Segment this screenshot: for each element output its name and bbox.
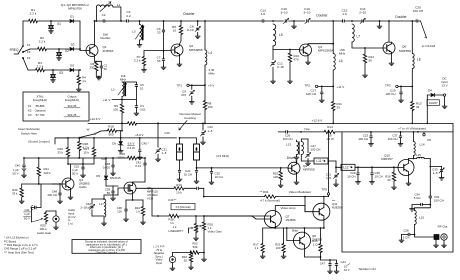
svg-text:TP2: TP2 bbox=[304, 83, 310, 87]
svg-text:1.0: 1.0 bbox=[261, 12, 266, 16]
svg-text:2N3566: 2N3566 bbox=[286, 218, 297, 222]
svg-text:10: 10 bbox=[344, 265, 347, 269]
svg-text:120: 120 bbox=[117, 210, 122, 214]
svg-text:100: 100 bbox=[276, 246, 281, 250]
svg-text:56: 56 bbox=[104, 67, 108, 71]
svg-text:D1: D1 bbox=[70, 15, 74, 19]
svg-text:D3: D3 bbox=[70, 64, 74, 68]
svg-text:C41: C41 bbox=[24, 208, 30, 212]
svg-text:F2: F2 bbox=[27, 50, 31, 54]
svg-text:100 CH: 100 CH bbox=[388, 137, 398, 141]
svg-text:1–5: 1–5 bbox=[326, 176, 331, 180]
svg-text:+7 to +9 V/Modulated: +7 to +9 V/Modulated bbox=[398, 126, 426, 130]
svg-text:3–10: 3–10 bbox=[304, 11, 311, 15]
svg-text:MRF357: MRF357 bbox=[381, 157, 393, 161]
svg-text:1 k: 1 k bbox=[136, 210, 140, 214]
svg-text:C2: C2 bbox=[102, 13, 106, 17]
svg-text:R18: R18 bbox=[108, 124, 114, 128]
svg-text:0.01: 0.01 bbox=[135, 164, 141, 168]
svg-text:Freq(MHz): Freq(MHz) bbox=[65, 98, 79, 102]
svg-text:C28: C28 bbox=[403, 228, 409, 232]
svg-text:470: 470 bbox=[294, 58, 299, 62]
svg-text:+11 V: +11 V bbox=[337, 85, 345, 89]
svg-text:3–10: 3–10 bbox=[281, 11, 288, 15]
svg-text:K3: K3 bbox=[28, 113, 32, 117]
svg-text:(4.5 MHz): (4.5 MHz) bbox=[216, 154, 229, 158]
svg-text:** R34: ** R34 bbox=[260, 190, 269, 194]
svg-text:P6: P6 bbox=[428, 138, 432, 142]
svg-text:D6: D6 bbox=[112, 141, 116, 145]
svg-text:D4: D4 bbox=[428, 89, 432, 93]
svg-text:2.2 k: 2.2 k bbox=[39, 40, 46, 44]
svg-text:2.2: 2.2 bbox=[126, 14, 131, 18]
svg-text:C45 *: C45 * bbox=[142, 142, 150, 146]
svg-text:Tantalum CH: Tantalum CH bbox=[358, 267, 375, 271]
svg-text:58.889: 58.889 bbox=[36, 104, 45, 108]
svg-text:C43 **: C43 ** bbox=[168, 198, 177, 202]
svg-text:56: 56 bbox=[369, 59, 373, 63]
svg-text:F3: F3 bbox=[27, 56, 31, 60]
svg-text:L4: L4 bbox=[209, 51, 213, 55]
svg-text:+11 V: +11 V bbox=[103, 98, 111, 102]
svg-text:92: 92 bbox=[184, 259, 188, 263]
svg-text:2.2 k: 2.2 k bbox=[134, 59, 141, 63]
svg-text:15 k: 15 k bbox=[83, 151, 89, 155]
svg-text:13 V: 13 V bbox=[441, 84, 447, 88]
svg-text:W: W bbox=[87, 128, 90, 132]
svg-text:1 k: 1 k bbox=[173, 225, 177, 229]
svg-text:D2: D2 bbox=[71, 43, 75, 47]
svg-text:Doubler: Doubler bbox=[100, 36, 110, 40]
svg-text:Bias: Bias bbox=[292, 229, 298, 233]
svg-text:923.25: 923.25 bbox=[68, 113, 77, 117]
svg-text:100 CH: 100 CH bbox=[311, 147, 321, 151]
svg-text:100 CH: 100 CH bbox=[385, 92, 395, 96]
svg-text:to C21/L8: to C21/L8 bbox=[422, 44, 436, 48]
svg-text:*** Heat Sink (See Text): *** Heat Sink (See Text) bbox=[4, 250, 34, 254]
svg-text:100 k: 100 k bbox=[44, 171, 52, 175]
svg-text:33: 33 bbox=[416, 105, 420, 109]
svg-text:1–5: 1–5 bbox=[433, 171, 438, 175]
svg-text:MHz: MHz bbox=[120, 77, 126, 81]
svg-text:MV2115: MV2115 bbox=[110, 176, 121, 180]
svg-text:33 k: 33 k bbox=[57, 151, 63, 155]
svg-text:+12.6 V: +12.6 V bbox=[312, 118, 324, 122]
svg-text:(Sound Jumper): (Sound Jumper) bbox=[28, 140, 50, 144]
svg-text:33 k: 33 k bbox=[12, 191, 18, 195]
svg-text:Driver: Driver bbox=[287, 156, 296, 160]
svg-text:Doubler: Doubler bbox=[316, 14, 328, 18]
svg-text:10: 10 bbox=[173, 29, 177, 33]
svg-text:0.4 W: 0.4 W bbox=[127, 146, 135, 150]
svg-text:1 k): 1 k) bbox=[68, 222, 73, 226]
svg-text:10: 10 bbox=[140, 87, 144, 91]
svg-text:1N4007: 1N4007 bbox=[429, 102, 438, 105]
svg-text:C40: C40 bbox=[15, 164, 21, 168]
svg-text:C20: C20 bbox=[164, 131, 170, 135]
svg-text:Input: Input bbox=[156, 261, 162, 265]
svg-text:L7: L7 bbox=[357, 35, 361, 39]
svg-text:+12.6 V: +12.6 V bbox=[90, 117, 102, 121]
svg-text:1.0: 1.0 bbox=[342, 12, 347, 16]
svg-text:330: 330 bbox=[89, 66, 94, 70]
svg-text:TP3: TP3 bbox=[385, 83, 391, 87]
svg-text:50 V: 50 V bbox=[24, 217, 30, 221]
svg-text:56: 56 bbox=[157, 59, 161, 63]
svg-text:50 V: 50 V bbox=[72, 172, 78, 176]
svg-text:100 CH: 100 CH bbox=[47, 193, 57, 197]
svg-text:Coupling: Coupling bbox=[184, 116, 196, 120]
svg-text:2–10: 2–10 bbox=[359, 11, 366, 15]
svg-text:33: 33 bbox=[157, 31, 161, 35]
svg-text:MJE300: MJE300 bbox=[332, 206, 343, 210]
svg-text:L1: L1 bbox=[117, 3, 121, 7]
svg-text:100 CH: 100 CH bbox=[413, 9, 424, 13]
svg-text:57.700: 57.700 bbox=[36, 113, 45, 117]
svg-text:L15: L15 bbox=[416, 153, 421, 157]
svg-text:0.002: 0.002 bbox=[103, 166, 111, 170]
svg-text:33: 33 bbox=[387, 178, 391, 182]
svg-text:100: 100 bbox=[208, 105, 213, 109]
svg-text:K2: K2 bbox=[28, 109, 32, 113]
svg-text:Freq(MHz): Freq(MHz) bbox=[33, 98, 47, 102]
svg-text:100 CH: 100 CH bbox=[283, 137, 293, 141]
svg-text:5 CH: 5 CH bbox=[414, 196, 421, 200]
svg-text:3.3 (Nominal): 3.3 (Nominal) bbox=[175, 206, 190, 209]
svg-text:910.25: 910.25 bbox=[68, 104, 77, 108]
svg-text:1 µF: 1 µF bbox=[24, 212, 30, 216]
svg-text:L11 *: L11 * bbox=[316, 159, 324, 163]
svg-text:MHz: MHz bbox=[209, 72, 216, 76]
svg-text:VCO: VCO bbox=[147, 197, 154, 201]
svg-text:100: 100 bbox=[113, 108, 118, 112]
svg-text:Optional: Optional bbox=[35, 109, 46, 113]
svg-text:MRF559: MRF559 bbox=[303, 167, 315, 171]
svg-text:+6.8 V: +6.8 V bbox=[135, 133, 144, 137]
svg-text:Audio Gain: Audio Gain bbox=[37, 231, 52, 235]
svg-text:+9 V: +9 V bbox=[208, 83, 214, 87]
svg-text:10 CH: 10 CH bbox=[215, 175, 223, 179]
svg-text:L3: L3 bbox=[132, 30, 136, 34]
svg-text:RF Out: RF Out bbox=[438, 225, 448, 229]
svg-text:Q6: Q6 bbox=[402, 45, 406, 49]
svg-text:33: 33 bbox=[337, 106, 341, 110]
svg-text:1/4 W: 1/4 W bbox=[326, 137, 334, 141]
svg-text:Video Amp: Video Amp bbox=[281, 206, 296, 210]
svg-text:100 CH: 100 CH bbox=[358, 137, 368, 141]
svg-text:CH=Chip Capacitor: CH=Chip Capacitor bbox=[96, 252, 118, 255]
svg-text:TP1: TP1 bbox=[176, 83, 182, 87]
svg-text:L5: L5 bbox=[279, 33, 283, 37]
svg-text:X2: X2 bbox=[65, 49, 69, 53]
svg-text:100 CH: 100 CH bbox=[434, 198, 444, 202]
svg-text:2–18: 2–18 bbox=[277, 65, 284, 69]
svg-text:100: 100 bbox=[273, 175, 278, 179]
svg-text:TP4: TP4 bbox=[304, 127, 310, 131]
svg-text:K1: K1 bbox=[28, 104, 32, 108]
svg-text:Audio: Audio bbox=[79, 185, 87, 189]
svg-text:D5: D5 bbox=[96, 174, 100, 178]
svg-text:F1: F1 bbox=[27, 43, 31, 47]
svg-text:4.7 k (Nominal): 4.7 k (Nominal) bbox=[260, 198, 280, 202]
svg-text:3–10: 3–10 bbox=[187, 28, 194, 32]
svg-text:1 k: 1 k bbox=[82, 79, 86, 83]
svg-text:L2: L2 bbox=[111, 88, 115, 92]
svg-text:Doubler: Doubler bbox=[395, 15, 407, 19]
svg-text:C44: C44 bbox=[341, 260, 347, 264]
svg-text:TP5: TP5 bbox=[321, 188, 327, 192]
svg-text:L12 *: L12 * bbox=[343, 166, 351, 170]
svg-text:MPS3866: MPS3866 bbox=[189, 48, 203, 52]
svg-text:2N3563: 2N3563 bbox=[103, 49, 114, 53]
svg-text:5 CH: 5 CH bbox=[403, 236, 410, 240]
svg-text:50 V: 50 V bbox=[13, 172, 19, 176]
svg-text:L17: L17 bbox=[99, 202, 104, 206]
svg-text:560: 560 bbox=[108, 132, 113, 136]
svg-text:10 CH: 10 CH bbox=[375, 175, 383, 179]
svg-text:MHz: MHz bbox=[339, 52, 346, 56]
svg-text:L14: L14 bbox=[420, 143, 425, 147]
svg-text:16 V: 16 V bbox=[344, 268, 350, 272]
svg-text:L16: L16 bbox=[419, 216, 424, 220]
svg-text:R14: R14 bbox=[327, 125, 333, 129]
svg-text:2.2 k: 2.2 k bbox=[30, 12, 37, 16]
svg-text:L8: L8 bbox=[417, 58, 421, 62]
svg-text:1–5: 1–5 bbox=[208, 129, 213, 133]
svg-text:MPN3706: MPN3706 bbox=[68, 6, 82, 10]
svg-text:0.01: 0.01 bbox=[140, 108, 146, 112]
svg-text:2.2 k: 2.2 k bbox=[37, 65, 44, 69]
svg-text:FREQ: FREQ bbox=[10, 48, 19, 52]
svg-text:LINEARITY: LINEARITY bbox=[169, 229, 184, 233]
svg-text:Doubler: Doubler bbox=[183, 12, 195, 16]
svg-text:10 CH: 10 CH bbox=[184, 173, 192, 177]
svg-text:Video Gain: Video Gain bbox=[208, 230, 223, 234]
svg-text:Video Modulator: Video Modulator bbox=[289, 190, 311, 194]
svg-text:56: 56 bbox=[107, 191, 111, 195]
svg-text:1 k: 1 k bbox=[255, 246, 259, 250]
svg-text:10 CH: 10 CH bbox=[347, 175, 355, 179]
svg-text:X1: X1 bbox=[57, 22, 61, 26]
svg-text:1–5: 1–5 bbox=[162, 151, 167, 155]
svg-text:10 k: 10 k bbox=[176, 190, 182, 194]
svg-text:L6: L6 bbox=[339, 59, 343, 63]
svg-text:539: 539 bbox=[193, 245, 198, 249]
svg-text:470: 470 bbox=[181, 93, 186, 97]
svg-text:100 CH: 100 CH bbox=[306, 92, 316, 96]
svg-text:C47: C47 bbox=[320, 262, 326, 266]
svg-text:Switch Here: Switch Here bbox=[21, 131, 38, 135]
svg-text:L13: L13 bbox=[286, 142, 291, 146]
svg-text:X3: X3 bbox=[59, 71, 63, 75]
svg-text:MPS2369A: MPS2369A bbox=[318, 49, 335, 53]
svg-text:MRF559: MRF559 bbox=[399, 49, 411, 53]
